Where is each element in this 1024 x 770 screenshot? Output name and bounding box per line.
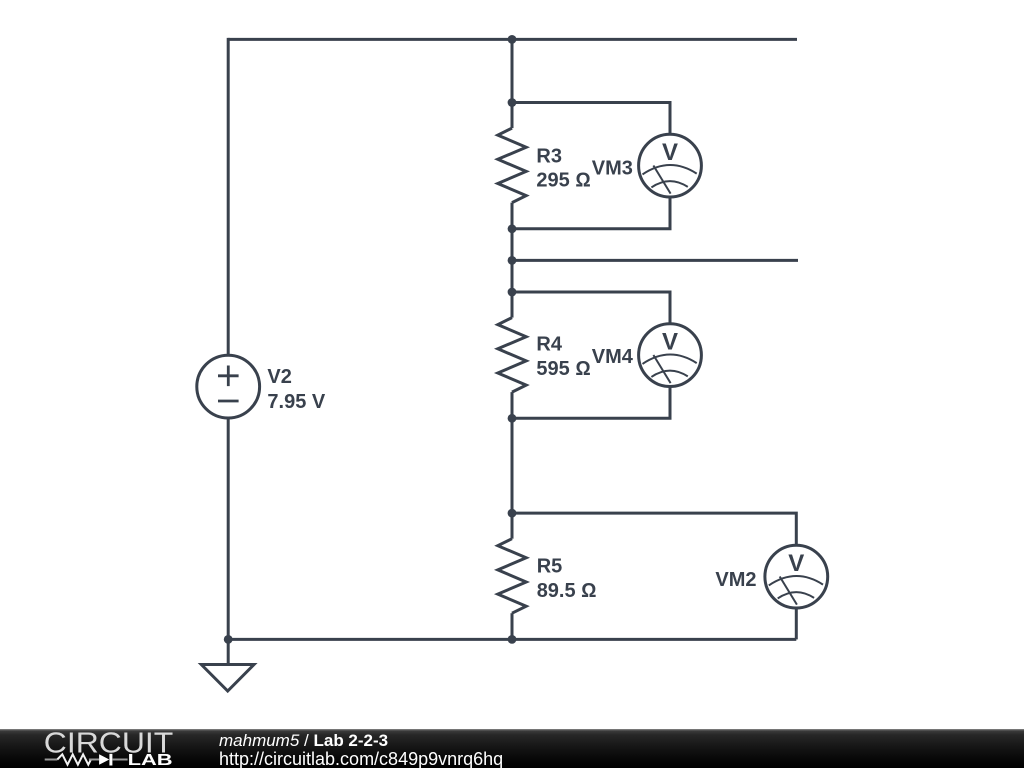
svg-text:VM4: VM4 [592, 346, 634, 368]
node R3 bottom [508, 224, 517, 233]
resistor R3 [498, 103, 526, 229]
node ground junction [224, 635, 233, 644]
footer bar [0, 729, 1024, 768]
svg-text:V: V [662, 139, 678, 166]
wire left vertical lower [227, 418, 230, 639]
svg-text:7.95 V: 7.95 V [267, 391, 325, 413]
svg-text:R3: R3 [536, 146, 562, 168]
wire top horizontal [228, 38, 797, 41]
svg-text:V2: V2 [267, 366, 291, 388]
node R4 bottom [508, 414, 517, 423]
node R5 bottom [508, 635, 517, 644]
footer url text [219, 749, 503, 770]
wire bottom horizontal [228, 638, 796, 641]
svg-text:VM2: VM2 [715, 569, 756, 591]
node junction top wire [508, 35, 517, 44]
wire VM4 bottom connection [512, 387, 670, 419]
svg-text:89.5 Ω: 89.5 Ω [537, 580, 597, 602]
label R4 value [536, 334, 590, 380]
wire VM2 bottom connection [795, 608, 798, 639]
node R5 top [508, 509, 517, 518]
svg-text:LAB: LAB [128, 752, 173, 768]
node R3 top [508, 98, 517, 107]
node R4 top [508, 288, 517, 297]
voltmeter VM4 [639, 324, 702, 387]
svg-text:VM3: VM3 [592, 157, 633, 179]
svg-text:V: V [788, 550, 804, 577]
wire main vertical top segment [511, 38, 514, 103]
svg-text:595 Ω: 595 Ω [536, 358, 590, 380]
wire main vertical R3-R4 segment [511, 229, 514, 292]
svg-text:R5: R5 [537, 556, 563, 578]
label R3 value [536, 146, 590, 192]
wire VM4 top connection [512, 292, 670, 324]
voltage source V2 [197, 355, 260, 418]
resistor R4 [498, 292, 526, 418]
voltmeter VM2 [765, 545, 828, 608]
svg-text:R4: R4 [536, 334, 562, 356]
label V2 value [267, 366, 325, 413]
label R5 value [537, 556, 597, 602]
wire second horizontal stub [512, 259, 798, 262]
svg-text:V: V [662, 329, 678, 356]
wire VM2 top connection [512, 513, 796, 545]
wire VM3 top connection [512, 103, 670, 135]
svg-text:295 Ω: 295 Ω [536, 170, 590, 192]
footer title text [219, 731, 388, 751]
CircuitLab logo [0, 729, 210, 768]
wire main vertical R4-R5 segment [511, 418, 514, 513]
ground [201, 639, 254, 691]
voltmeter VM3 [639, 134, 702, 197]
wire VM3 bottom connection [512, 197, 670, 229]
resistor R5 [498, 513, 526, 639]
node second wire junction [508, 256, 517, 265]
wire left vertical upper [227, 38, 230, 355]
